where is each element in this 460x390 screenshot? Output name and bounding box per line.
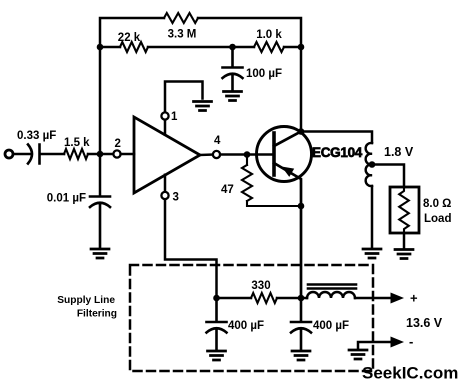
resistor 22 k	[120, 42, 148, 52]
svg-text:100 µF: 100 µF	[246, 68, 282, 80]
svg-text:1.8 V: 1.8 V	[384, 145, 414, 159]
node junction top-left	[97, 44, 104, 51]
svg-text:330: 330	[251, 280, 270, 292]
wire filter rail	[217, 297, 308, 300]
ground pin1	[194, 102, 212, 111]
wire collector to coil	[301, 132, 372, 144]
input terminal	[5, 150, 13, 158]
node coil tap	[369, 161, 376, 168]
svg-text:4: 4	[214, 135, 221, 147]
wire coil bottom to ground	[371, 186, 374, 248]
svg-text:22 k: 22 k	[118, 32, 141, 44]
svg-text:Load: Load	[424, 213, 451, 225]
node input junction	[97, 151, 104, 158]
node junction 100uF	[229, 44, 236, 51]
wire left vertical	[99, 47, 102, 196]
pin 4 terminal	[213, 151, 220, 158]
ground minus	[349, 350, 367, 359]
wire tap to load	[372, 165, 404, 188]
pin 1 stub	[165, 82, 203, 135]
dashed filter box	[130, 265, 373, 371]
svg-text:-: -	[409, 334, 413, 349]
resistor R 3.3 M	[164, 13, 198, 23]
wire second rail y=47	[100, 46, 301, 49]
resistor 330	[251, 293, 277, 303]
wire top rail with left/right corners	[100, 18, 301, 47]
wire pin4 to base	[220, 153, 274, 156]
inductor L1 output coil	[366, 143, 372, 186]
svg-text:400 µF: 400 µF	[313, 320, 349, 332]
node filter right junction	[298, 295, 305, 302]
wire to pin 2	[88, 153, 113, 156]
ground 0.01uF	[91, 249, 109, 258]
pin 3 terminal	[161, 192, 168, 199]
svg-text:1.0 k: 1.0 k	[256, 29, 282, 41]
svg-text:2: 2	[115, 138, 121, 150]
transistor emitter arrow	[282, 167, 295, 177]
wire minus output	[358, 342, 392, 349]
node filter left junction	[213, 295, 220, 302]
node base junction	[244, 151, 251, 158]
wire right vertical to collector	[300, 47, 303, 132]
svg-text:400 µF: 400 µF	[228, 320, 264, 332]
svg-text:13.6 V: 13.6 V	[406, 316, 443, 330]
svg-text:3: 3	[173, 192, 179, 204]
capacitor C 0.01 uF	[90, 197, 110, 249]
transistor Q1 ECG104 circle	[257, 127, 312, 182]
resistor 1.0 k	[254, 42, 284, 52]
pin 3 stub	[165, 175, 217, 298]
svg-text:Supply Line: Supply Line	[57, 295, 115, 306]
svg-text:SeekIC.com: SeekIC.com	[362, 364, 458, 383]
ground coil	[363, 249, 381, 258]
capacitor C 0.33 uF	[28, 145, 64, 164]
capacitor C 400 uF left	[207, 298, 227, 350]
arrow minus	[391, 337, 405, 348]
node junction top-right	[298, 44, 305, 51]
wire opamp output pin 4	[200, 153, 213, 156]
node collector junction	[298, 128, 305, 135]
svg-text:+: +	[410, 291, 418, 306]
svg-text:ECG104: ECG104	[312, 145, 363, 160]
svg-text:1: 1	[171, 111, 178, 123]
transistor collector	[274, 132, 301, 147]
wire plus output	[355, 297, 392, 300]
svg-text:47: 47	[221, 184, 234, 196]
svg-text:3.3 M: 3.3 M	[168, 29, 197, 41]
transistor emitter	[274, 163, 301, 298]
wire pin2 to opamp	[121, 153, 134, 156]
ground 400uF right	[292, 351, 310, 360]
choke core lines	[308, 285, 356, 289]
svg-text:Filtering: Filtering	[77, 309, 117, 320]
inductor L2 filter choke	[307, 292, 355, 298]
load box	[390, 187, 419, 233]
svg-text:0.01 µF: 0.01 µF	[47, 193, 86, 205]
arrow plus	[391, 293, 405, 304]
pin 2 terminal	[113, 150, 120, 157]
op-amp U1 triangle	[134, 117, 200, 193]
resistor 47	[242, 155, 301, 207]
svg-text:0.33 µF: 0.33 µF	[17, 130, 56, 142]
transistor base bar	[272, 133, 276, 175]
pin 1 terminal	[161, 112, 168, 119]
ground load	[395, 250, 413, 259]
ground 400uF left	[208, 351, 226, 360]
resistor 8.0 ohm load	[399, 187, 409, 233]
wire input	[13, 153, 31, 156]
svg-text:8.0 Ω: 8.0 Ω	[423, 198, 451, 210]
ground 100uF	[224, 92, 242, 101]
node 47 bottom junction	[298, 203, 305, 210]
capacitor C 400 uF right	[291, 298, 311, 350]
svg-text:1.5 k: 1.5 k	[64, 137, 90, 149]
wire load to ground	[403, 233, 406, 248]
resistor 1.5 k	[64, 149, 88, 159]
capacitor C 100 uF	[223, 47, 243, 90]
